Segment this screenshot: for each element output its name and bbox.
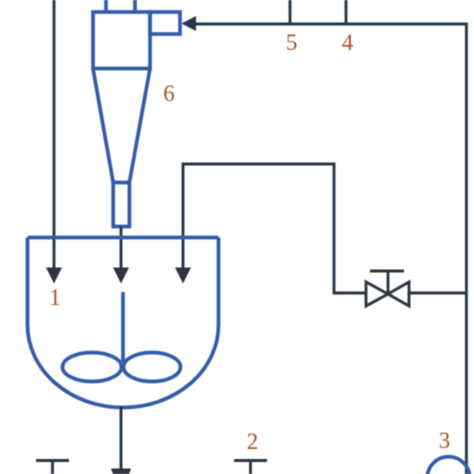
arrow into tank stream 1 <box>46 268 62 284</box>
svg-text:3: 3 <box>439 428 451 453</box>
valve handle stream 2 <box>234 461 267 474</box>
valve V1 handle <box>370 271 404 293</box>
wire: valve outlet to right pipe <box>409 292 466 295</box>
tank T1 agitator shaft <box>121 292 125 362</box>
arrow into tank from cyclone <box>113 268 129 284</box>
pump P3 circle (clipped) <box>427 457 470 474</box>
wire: stream 4 stub <box>345 0 348 24</box>
valve V1 bowtie <box>366 282 409 306</box>
wire: cyclone dipleg to tank <box>120 227 123 270</box>
wire: recycle branch from cyclone area to valve <box>183 164 366 293</box>
cyclone 6: side inlet box <box>150 12 180 34</box>
svg-text:4: 4 <box>342 30 354 55</box>
wire: feed pipe stream 1 (left vertical) <box>53 0 56 269</box>
cyclone 6: body rectangle <box>93 12 150 69</box>
cyclone 6: bottom outlet rect <box>113 183 129 227</box>
cyclone 6: cone <box>93 69 150 183</box>
svg-text:5: 5 <box>286 30 298 55</box>
valve handle bottom-left <box>36 461 69 474</box>
wire: top header to cyclone inlet <box>195 24 466 474</box>
svg-text:6: 6 <box>163 81 175 106</box>
cyclone 6: top outlet stub <box>104 0 108 13</box>
tank T1 shell <box>28 238 219 408</box>
arrow into tank recycle branch <box>175 268 191 284</box>
wire: stream 5 stub <box>289 0 292 24</box>
tank T1 impeller right blade <box>124 353 181 382</box>
arrow at tank outlet (clipped) <box>111 469 131 474</box>
wire: tank bottom outlet <box>120 406 123 470</box>
svg-text:1: 1 <box>49 285 61 310</box>
tank T1 impeller left blade <box>63 353 122 382</box>
svg-text:2: 2 <box>247 429 259 454</box>
arrow into cyclone inlet <box>182 16 197 31</box>
